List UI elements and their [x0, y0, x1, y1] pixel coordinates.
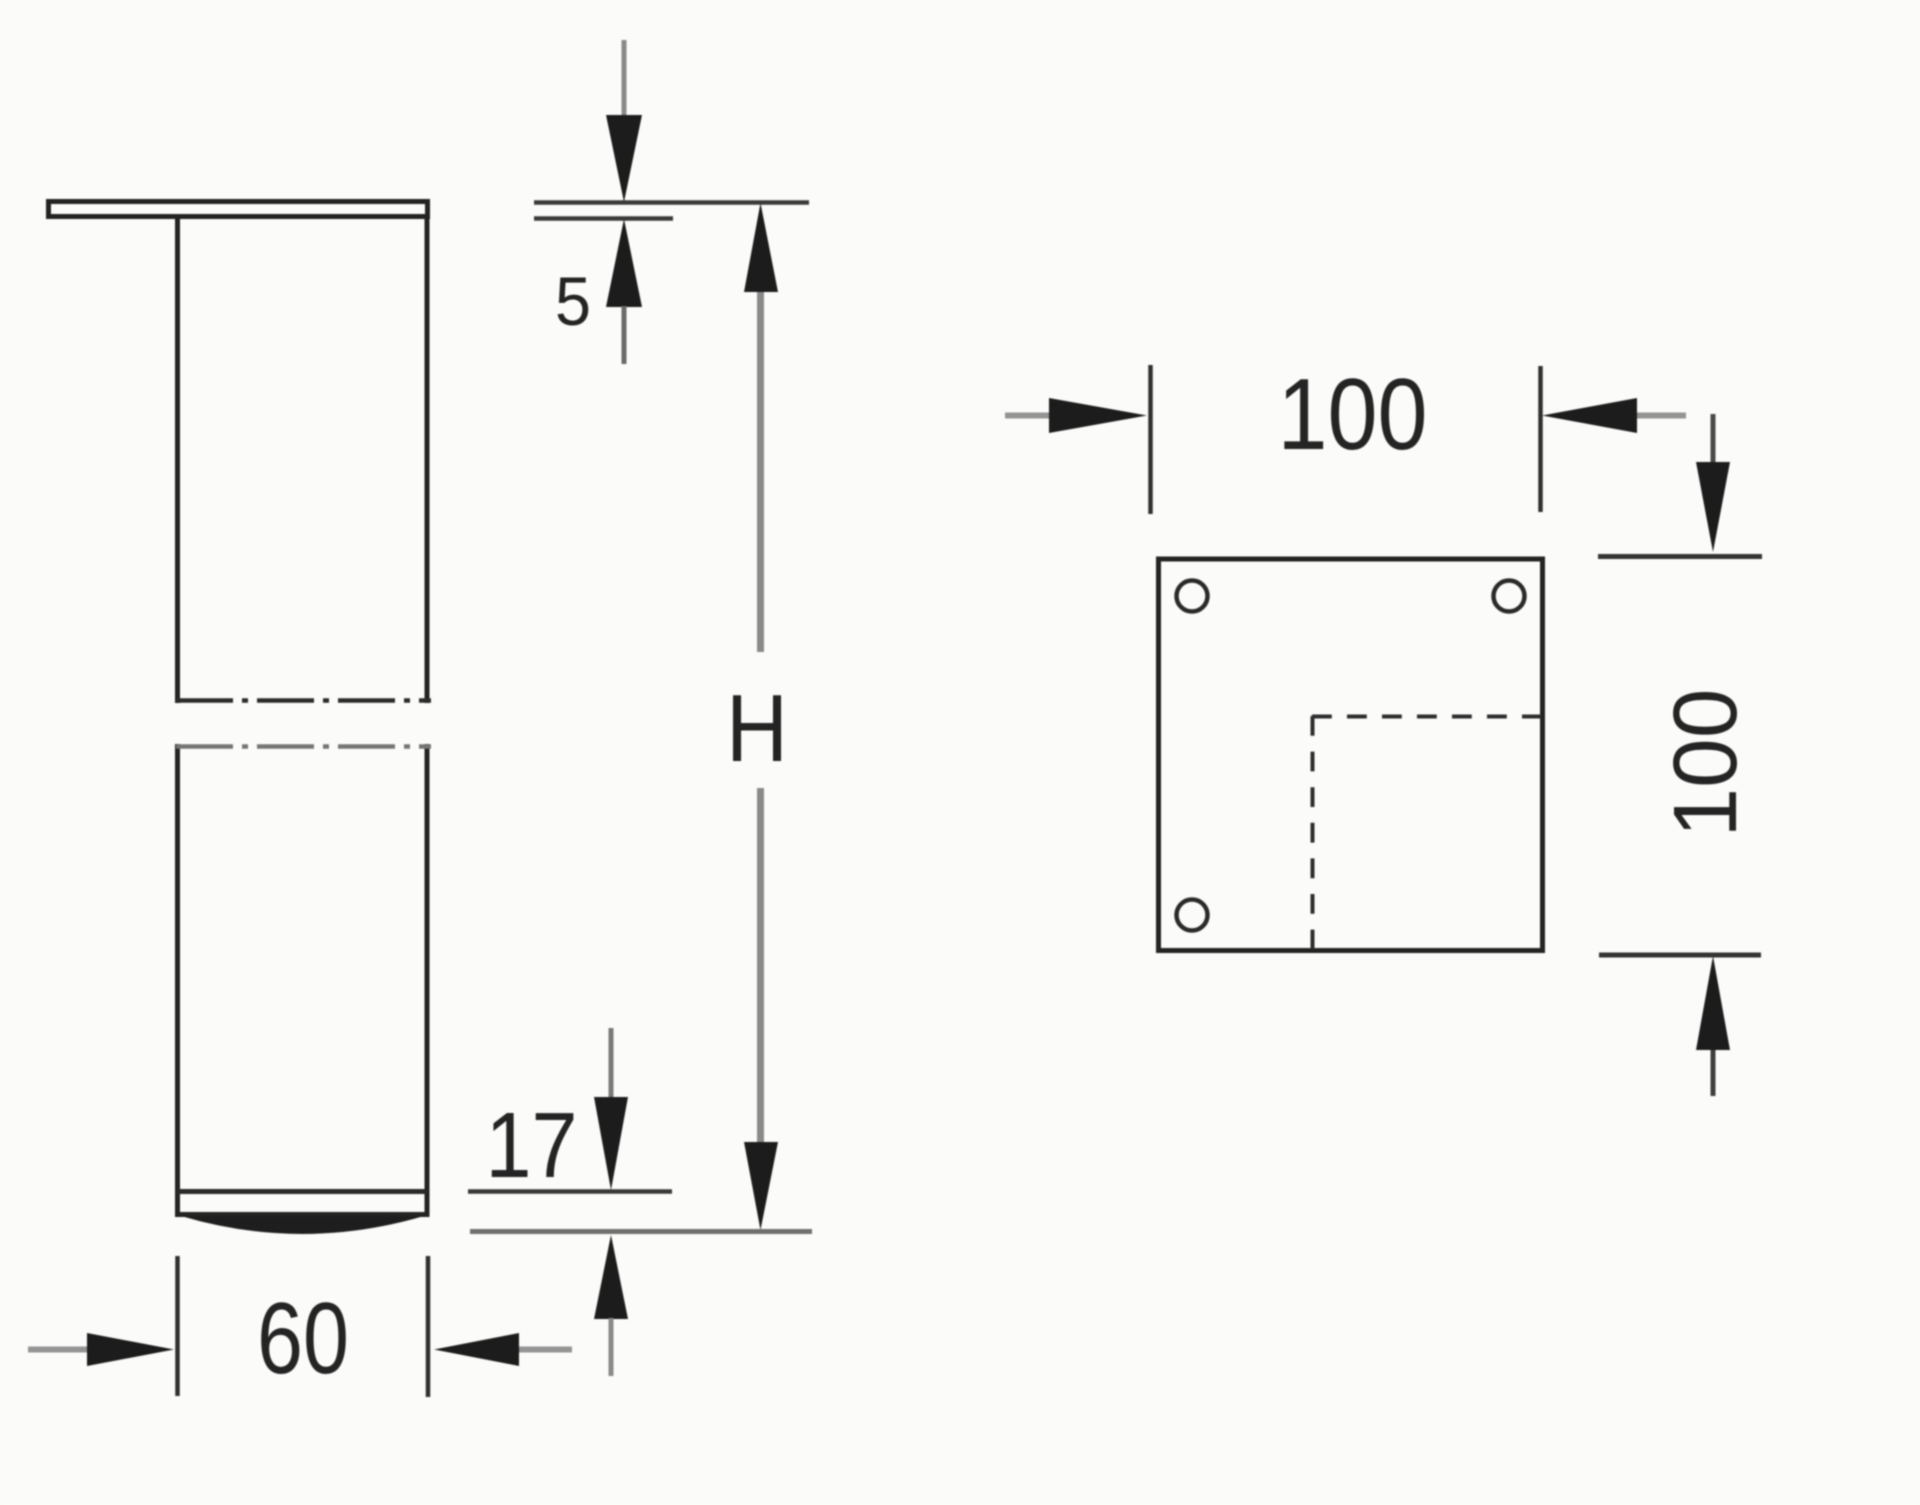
svg-text:H: H: [726, 675, 788, 782]
svg-text:5: 5: [555, 263, 591, 340]
svg-text:60: 60: [257, 1283, 349, 1395]
svg-text:100: 100: [1278, 359, 1428, 471]
svg-text:17: 17: [486, 1093, 578, 1197]
svg-text:100: 100: [1656, 689, 1756, 838]
